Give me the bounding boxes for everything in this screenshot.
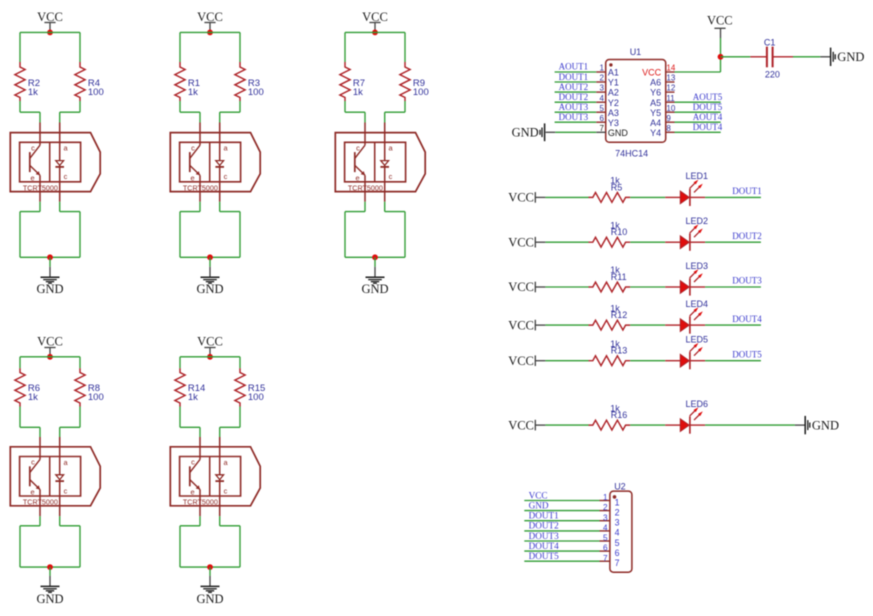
svg-text:R10: R10 bbox=[611, 227, 628, 237]
svg-text:Y4: Y4 bbox=[650, 128, 661, 138]
svg-text:12: 12 bbox=[666, 84, 675, 93]
svg-text:11: 11 bbox=[666, 94, 675, 103]
svg-text:GND: GND bbox=[512, 126, 539, 140]
svg-text:LED3: LED3 bbox=[686, 261, 709, 271]
svg-text:4: 4 bbox=[603, 524, 608, 533]
svg-text:6: 6 bbox=[603, 544, 608, 553]
svg-text:C1: C1 bbox=[764, 38, 776, 48]
svg-text:74HC14: 74HC14 bbox=[615, 149, 648, 159]
svg-text:VCC: VCC bbox=[197, 334, 223, 348]
svg-text:c: c bbox=[31, 143, 35, 152]
svg-text:100: 100 bbox=[88, 392, 104, 403]
svg-text:U2: U2 bbox=[614, 481, 626, 491]
svg-text:GND: GND bbox=[196, 282, 223, 296]
svg-text:VCC: VCC bbox=[508, 280, 534, 294]
svg-text:1: 1 bbox=[603, 493, 608, 502]
svg-text:DOUT2: DOUT2 bbox=[529, 521, 560, 531]
svg-text:DOUT5: DOUT5 bbox=[529, 551, 560, 561]
svg-text:VCC: VCC bbox=[197, 10, 223, 24]
svg-text:220: 220 bbox=[765, 69, 780, 79]
svg-text:1: 1 bbox=[600, 64, 605, 73]
svg-text:c: c bbox=[64, 486, 68, 495]
svg-text:TCRT5000: TCRT5000 bbox=[183, 183, 218, 192]
svg-text:c: c bbox=[224, 172, 228, 181]
svg-text:A1: A1 bbox=[608, 68, 619, 78]
svg-text:VCC: VCC bbox=[508, 418, 534, 432]
svg-text:c: c bbox=[31, 458, 35, 467]
svg-text:5: 5 bbox=[615, 538, 620, 548]
svg-text:Y1: Y1 bbox=[608, 78, 619, 88]
svg-text:DOUT2: DOUT2 bbox=[559, 92, 589, 102]
svg-text:Y3: Y3 bbox=[608, 118, 619, 128]
svg-text:LED5: LED5 bbox=[686, 335, 709, 345]
svg-text:14: 14 bbox=[666, 64, 675, 73]
svg-text:8: 8 bbox=[666, 124, 671, 133]
svg-text:VCC: VCC bbox=[642, 68, 662, 78]
svg-text:LED1: LED1 bbox=[686, 171, 709, 181]
svg-text:A4: A4 bbox=[650, 118, 661, 128]
svg-text:DOUT4: DOUT4 bbox=[732, 314, 762, 324]
svg-text:AOUT2: AOUT2 bbox=[559, 82, 589, 92]
svg-text:DOUT1: DOUT1 bbox=[529, 511, 560, 521]
svg-text:GND: GND bbox=[36, 592, 63, 606]
svg-text:Y5: Y5 bbox=[650, 108, 661, 118]
svg-text:VCC: VCC bbox=[508, 318, 534, 332]
svg-text:100: 100 bbox=[413, 87, 429, 98]
svg-text:A2: A2 bbox=[608, 88, 619, 98]
svg-text:GND: GND bbox=[837, 50, 864, 64]
svg-text:VCC: VCC bbox=[37, 334, 63, 348]
svg-text:13: 13 bbox=[666, 74, 675, 83]
svg-text:R5: R5 bbox=[611, 182, 623, 192]
svg-text:VCC: VCC bbox=[508, 354, 534, 368]
svg-text:c: c bbox=[64, 172, 68, 181]
svg-text:7: 7 bbox=[600, 124, 605, 133]
svg-text:GND: GND bbox=[361, 282, 388, 296]
svg-text:3: 3 bbox=[615, 518, 620, 528]
svg-text:GND: GND bbox=[36, 282, 63, 296]
svg-text:R12: R12 bbox=[611, 310, 628, 320]
svg-text:10: 10 bbox=[666, 104, 675, 113]
svg-text:100: 100 bbox=[248, 87, 264, 98]
svg-text:DOUT5: DOUT5 bbox=[732, 349, 762, 359]
svg-text:e: e bbox=[355, 174, 359, 183]
svg-text:DOUT4: DOUT4 bbox=[529, 541, 560, 551]
svg-text:GND: GND bbox=[812, 418, 839, 432]
svg-text:6: 6 bbox=[615, 548, 620, 558]
svg-text:6: 6 bbox=[600, 114, 605, 123]
svg-text:R13: R13 bbox=[611, 346, 628, 356]
svg-text:c: c bbox=[224, 486, 228, 495]
svg-text:3: 3 bbox=[600, 84, 605, 93]
svg-text:DOUT3: DOUT3 bbox=[559, 112, 589, 122]
svg-text:2: 2 bbox=[615, 507, 620, 517]
svg-text:9: 9 bbox=[666, 114, 671, 123]
svg-text:VCC: VCC bbox=[37, 10, 63, 24]
svg-text:7: 7 bbox=[615, 558, 620, 568]
svg-text:GND: GND bbox=[529, 500, 549, 510]
svg-text:c: c bbox=[389, 172, 393, 181]
svg-text:A6: A6 bbox=[650, 78, 661, 88]
svg-text:VCC: VCC bbox=[529, 490, 548, 500]
svg-text:5: 5 bbox=[600, 104, 605, 113]
svg-text:4: 4 bbox=[615, 528, 620, 538]
svg-text:e: e bbox=[190, 174, 194, 183]
svg-text:100: 100 bbox=[88, 87, 104, 98]
svg-text:1k: 1k bbox=[28, 87, 38, 98]
svg-text:TCRT5000: TCRT5000 bbox=[23, 498, 58, 507]
svg-text:1k: 1k bbox=[188, 392, 198, 403]
svg-text:GND: GND bbox=[196, 592, 223, 606]
svg-text:5: 5 bbox=[603, 534, 608, 543]
svg-text:4: 4 bbox=[600, 94, 605, 103]
svg-text:e: e bbox=[190, 488, 194, 497]
svg-text:AOUT4: AOUT4 bbox=[693, 112, 723, 122]
svg-text:1k: 1k bbox=[28, 392, 38, 403]
svg-text:1: 1 bbox=[615, 497, 620, 507]
svg-text:DOUT1: DOUT1 bbox=[559, 72, 589, 82]
svg-text:DOUT4: DOUT4 bbox=[693, 122, 723, 132]
svg-text:e: e bbox=[30, 488, 34, 497]
svg-text:100: 100 bbox=[248, 392, 264, 403]
svg-text:c: c bbox=[191, 143, 195, 152]
svg-text:3: 3 bbox=[603, 513, 608, 522]
svg-text:VCC: VCC bbox=[362, 10, 388, 24]
svg-text:VCC: VCC bbox=[707, 13, 733, 27]
svg-text:2: 2 bbox=[600, 74, 605, 83]
svg-text:DOUT1: DOUT1 bbox=[732, 186, 762, 196]
svg-text:TCRT5000: TCRT5000 bbox=[23, 183, 58, 192]
svg-text:LED6: LED6 bbox=[686, 399, 709, 409]
svg-text:A5: A5 bbox=[650, 98, 661, 108]
svg-text:VCC: VCC bbox=[508, 235, 534, 249]
svg-text:Y2: Y2 bbox=[608, 98, 619, 108]
svg-text:AOUT5: AOUT5 bbox=[693, 92, 723, 102]
svg-text:Y6: Y6 bbox=[650, 88, 661, 98]
svg-text:VCC: VCC bbox=[508, 191, 534, 205]
svg-text:e: e bbox=[30, 174, 34, 183]
svg-text:GND: GND bbox=[608, 128, 629, 138]
svg-text:TCRT5000: TCRT5000 bbox=[348, 183, 383, 192]
svg-text:DOUT5: DOUT5 bbox=[693, 102, 723, 112]
svg-text:2: 2 bbox=[603, 503, 608, 512]
svg-text:1k: 1k bbox=[188, 87, 198, 98]
svg-text:LED4: LED4 bbox=[686, 299, 709, 309]
svg-text:LED2: LED2 bbox=[686, 216, 709, 226]
svg-text:DOUT3: DOUT3 bbox=[732, 276, 762, 286]
svg-text:1k: 1k bbox=[353, 87, 363, 98]
svg-text:R11: R11 bbox=[611, 272, 627, 282]
svg-text:DOUT3: DOUT3 bbox=[529, 531, 560, 541]
svg-text:c: c bbox=[356, 143, 360, 152]
svg-text:7: 7 bbox=[603, 554, 608, 563]
svg-text:R16: R16 bbox=[611, 410, 628, 420]
svg-text:c: c bbox=[191, 458, 195, 467]
svg-text:DOUT2: DOUT2 bbox=[732, 231, 762, 241]
svg-text:AOUT3: AOUT3 bbox=[559, 102, 589, 112]
svg-text:U1: U1 bbox=[630, 47, 642, 57]
svg-text:AOUT1: AOUT1 bbox=[559, 62, 589, 72]
svg-text:TCRT5000: TCRT5000 bbox=[183, 498, 218, 507]
svg-text:A3: A3 bbox=[608, 108, 619, 118]
